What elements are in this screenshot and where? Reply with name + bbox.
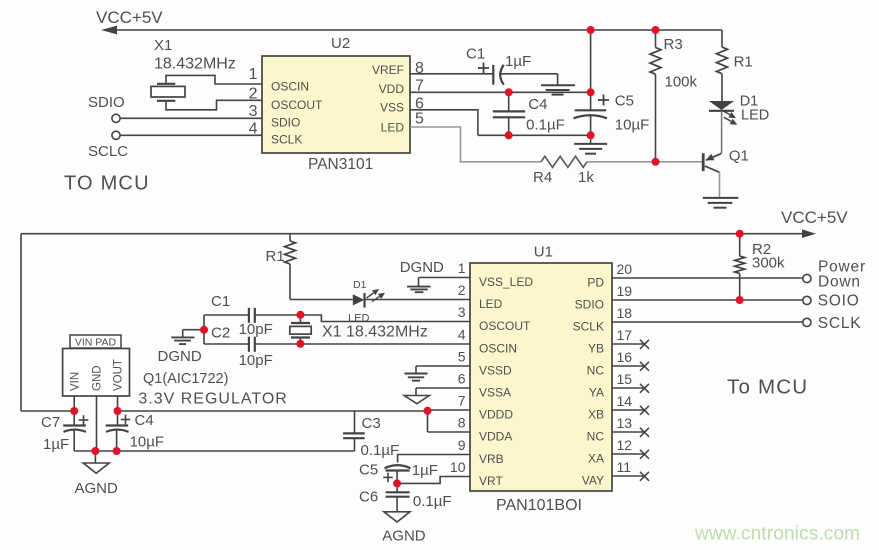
svg-text:VRB: VRB: [479, 452, 504, 466]
svg-text:C7: C7: [41, 414, 60, 431]
svg-text:18: 18: [617, 305, 633, 321]
svg-text:SCLK: SCLK: [818, 315, 862, 332]
svg-text:4: 4: [458, 327, 466, 343]
svg-text:C4: C4: [135, 412, 154, 429]
svg-text:XA: XA: [588, 452, 604, 466]
svg-text:LED: LED: [381, 121, 405, 135]
svg-text:VDDD: VDDD: [479, 408, 513, 422]
svg-text:PAN101BOI: PAN101BOI: [496, 497, 582, 514]
svg-text:10µF: 10µF: [130, 434, 165, 451]
svg-text:PD: PD: [587, 276, 604, 290]
svg-text:R1: R1: [266, 248, 285, 265]
svg-text:VREF: VREF: [372, 63, 404, 77]
svg-text:SDIO: SDIO: [575, 298, 604, 312]
svg-text:1: 1: [458, 260, 466, 276]
svg-text:To MCU: To MCU: [727, 376, 808, 399]
svg-text:1k: 1k: [578, 169, 594, 186]
svg-text:VDD: VDD: [379, 82, 405, 96]
svg-text:2: 2: [249, 86, 258, 103]
svg-text:2: 2: [458, 282, 466, 298]
svg-text:OSCIN: OSCIN: [271, 80, 309, 94]
svg-text:U2: U2: [331, 35, 350, 52]
svg-text:10µF: 10µF: [615, 116, 650, 133]
svg-text:C6: C6: [359, 489, 378, 506]
svg-text:YA: YA: [589, 386, 604, 400]
svg-text:OSCIN: OSCIN: [479, 342, 517, 356]
svg-text:X1: X1: [154, 37, 172, 54]
svg-text:17: 17: [617, 327, 633, 343]
svg-text:SDIO: SDIO: [271, 116, 300, 130]
svg-text:VCC+5V: VCC+5V: [781, 208, 848, 227]
svg-text:LED: LED: [479, 297, 503, 311]
svg-text:R4: R4: [533, 169, 552, 186]
svg-text:R3: R3: [664, 36, 683, 53]
svg-text:VRT: VRT: [479, 474, 503, 488]
svg-text:R1: R1: [734, 54, 753, 71]
svg-text:PAN3101: PAN3101: [308, 156, 373, 173]
svg-text:15: 15: [617, 371, 633, 387]
svg-text:8: 8: [458, 415, 466, 431]
svg-text:VSS_LED: VSS_LED: [479, 275, 533, 289]
svg-text:OSCOUT: OSCOUT: [479, 319, 531, 333]
svg-text:5: 5: [458, 349, 466, 365]
svg-text:X1 18.432MHz: X1 18.432MHz: [322, 324, 428, 341]
svg-text:100k: 100k: [665, 73, 698, 90]
svg-text:19: 19: [617, 283, 633, 299]
svg-text:VAY: VAY: [582, 474, 604, 488]
svg-text:www.cntronics.com: www.cntronics.com: [694, 524, 860, 545]
svg-text:0.1µF: 0.1µF: [526, 117, 565, 134]
svg-text:Q1(AIC1722): Q1(AIC1722): [143, 371, 228, 387]
svg-text:AGND: AGND: [382, 528, 426, 545]
svg-text:10: 10: [450, 459, 466, 475]
svg-text:OSCOUT: OSCOUT: [271, 98, 323, 112]
svg-text:18.432MHz: 18.432MHz: [154, 56, 236, 73]
svg-text:SDIO: SDIO: [88, 94, 125, 111]
svg-text:C1: C1: [466, 46, 485, 63]
svg-text:XB: XB: [588, 408, 604, 422]
svg-text:NC: NC: [587, 364, 605, 378]
svg-text:5: 5: [415, 111, 424, 128]
svg-text:1µF: 1µF: [43, 436, 69, 453]
svg-text:4: 4: [249, 120, 258, 137]
svg-text:VIN: VIN: [70, 372, 82, 391]
svg-text:6: 6: [458, 371, 466, 387]
svg-text:VCC+5V: VCC+5V: [96, 8, 163, 27]
svg-text:3: 3: [458, 304, 466, 320]
svg-text:DGND: DGND: [400, 259, 444, 276]
svg-text:11: 11: [617, 459, 632, 475]
svg-text:12: 12: [617, 437, 633, 453]
svg-text:Down: Down: [818, 274, 861, 291]
svg-text:D1: D1: [353, 279, 367, 291]
svg-text:9: 9: [458, 437, 466, 453]
svg-text:0.1µF: 0.1µF: [361, 442, 400, 459]
svg-text:300k: 300k: [752, 255, 785, 272]
svg-text:VOUT: VOUT: [113, 359, 125, 391]
svg-text:DGND: DGND: [158, 348, 202, 365]
svg-text:16: 16: [617, 349, 633, 365]
svg-text:0.1µF: 0.1µF: [413, 493, 452, 510]
svg-text:10pF: 10pF: [239, 321, 273, 338]
svg-text:SCLK: SCLK: [271, 133, 302, 147]
svg-text:C4: C4: [528, 96, 547, 113]
svg-text:TO MCU: TO MCU: [64, 173, 150, 195]
svg-text:1µF: 1µF: [505, 53, 531, 70]
svg-text:VSSA: VSSA: [479, 386, 511, 400]
svg-text:AGND: AGND: [75, 480, 119, 497]
svg-text:VIN PAD: VIN PAD: [75, 336, 117, 348]
svg-text:3: 3: [249, 103, 258, 120]
svg-text:VSSD: VSSD: [479, 364, 512, 378]
svg-text:7: 7: [458, 393, 466, 409]
svg-text:14: 14: [617, 393, 633, 409]
svg-text:SCLC: SCLC: [88, 143, 128, 160]
svg-text:VSS: VSS: [380, 101, 404, 115]
svg-text:C3: C3: [362, 415, 381, 432]
svg-text:1: 1: [249, 66, 258, 83]
svg-text:C5: C5: [359, 461, 378, 478]
svg-text:SOIO: SOIO: [818, 292, 860, 309]
svg-text:20: 20: [617, 261, 633, 277]
svg-text:1µF: 1µF: [412, 462, 438, 479]
svg-text:Q1: Q1: [729, 148, 749, 165]
svg-text:C5: C5: [615, 93, 634, 110]
svg-text:VDDA: VDDA: [479, 430, 512, 444]
svg-text:GND: GND: [92, 365, 104, 391]
svg-text:YB: YB: [588, 342, 604, 356]
svg-text:U1: U1: [534, 244, 553, 261]
svg-text:LED: LED: [741, 108, 769, 124]
svg-text:C2: C2: [211, 325, 230, 342]
svg-text:3.3V REGULATOR: 3.3V REGULATOR: [138, 391, 287, 408]
svg-text:SCLK: SCLK: [573, 320, 604, 334]
svg-text:13: 13: [617, 415, 633, 431]
svg-text:C1: C1: [211, 293, 230, 310]
svg-text:NC: NC: [587, 430, 605, 444]
svg-text:10pF: 10pF: [239, 352, 273, 369]
